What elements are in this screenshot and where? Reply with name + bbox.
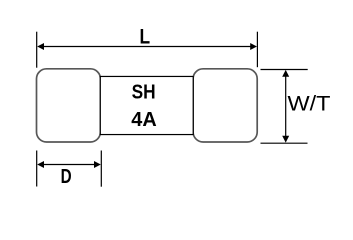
dimension L: right arrowhead: [250, 43, 257, 50]
dimension L: left extension line: [36, 32, 38, 68]
dimension W/T: bottom arrowhead: [282, 136, 289, 143]
dimension L: dimension line: [40, 46, 254, 48]
dimension D: right arrowhead: [94, 161, 101, 168]
svg-text:SH: SH: [132, 81, 156, 104]
dimension W/T: top arrowhead: [282, 70, 289, 77]
svg-text:L: L: [140, 25, 151, 49]
dimension D: dimension line: [40, 164, 98, 166]
dimension W/T: dimension line: [285, 73, 287, 140]
dimension W/T: bottom extension line: [261, 142, 308, 144]
dimension W/T: top extension line: [261, 69, 308, 71]
right end cap: [193, 69, 257, 142]
left end cap: [37, 69, 101, 142]
dimension D: right extension line: [100, 151, 102, 187]
svg-text:4A: 4A: [131, 108, 157, 131]
svg-text:D: D: [61, 165, 72, 188]
dimension D: left extension line: [36, 151, 38, 187]
dimension D: left arrowhead: [37, 161, 44, 168]
fuse body: [100, 76, 193, 134]
dimension L: right extension line: [256, 32, 258, 67]
svg-text:W/T: W/T: [288, 92, 331, 116]
dimension L: left arrowhead: [37, 43, 44, 50]
